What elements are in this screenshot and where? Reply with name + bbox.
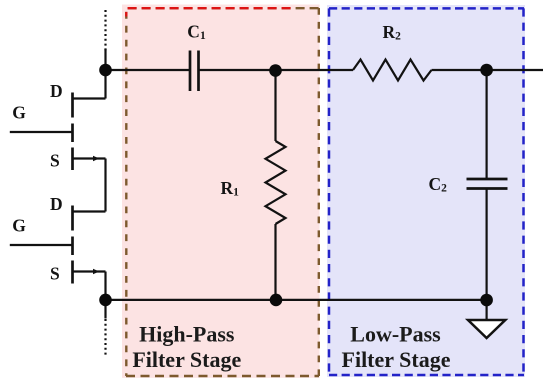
svg-text:Low-Pass: Low-Pass (350, 322, 441, 347)
svg-text:D: D (50, 81, 63, 101)
svg-text:G: G (12, 103, 26, 123)
svg-text:Filter Stage: Filter Stage (342, 347, 451, 372)
svg-text:G: G (12, 216, 26, 236)
svg-text:S: S (50, 150, 60, 170)
svg-text:High-Pass: High-Pass (139, 322, 235, 347)
svg-text:S: S (50, 263, 60, 283)
svg-text:Filter Stage: Filter Stage (132, 347, 241, 372)
svg-text:D: D (50, 194, 63, 214)
